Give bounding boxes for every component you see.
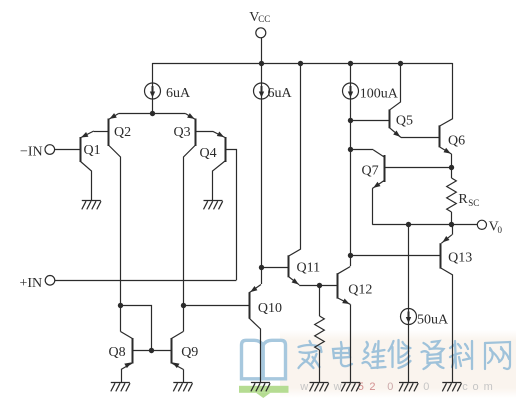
svg-text:Q9: Q9 xyxy=(181,345,198,360)
svg-text:0: 0 xyxy=(498,225,503,235)
svg-text:+IN: +IN xyxy=(20,276,43,291)
svg-text:m: m xyxy=(484,381,493,393)
svg-text:2: 2 xyxy=(369,381,375,393)
svg-text:Q4: Q4 xyxy=(200,146,217,161)
svg-text:0: 0 xyxy=(423,381,429,393)
svg-text:−IN: −IN xyxy=(20,145,43,160)
svg-text:Q8: Q8 xyxy=(109,345,126,360)
svg-text:Q1: Q1 xyxy=(84,143,101,158)
svg-text:CC: CC xyxy=(258,14,270,24)
svg-text:w: w xyxy=(333,381,342,393)
svg-text:o: o xyxy=(473,381,479,393)
svg-text:SC: SC xyxy=(468,198,479,208)
svg-text:50uA: 50uA xyxy=(417,313,449,328)
svg-text:100uA: 100uA xyxy=(360,86,399,101)
svg-text:Q2: Q2 xyxy=(114,125,131,140)
svg-text:Q6: Q6 xyxy=(448,133,465,148)
svg-text:Q12: Q12 xyxy=(348,283,372,298)
svg-text:Q3: Q3 xyxy=(174,125,191,140)
svg-text:R: R xyxy=(458,192,468,207)
svg-text:c: c xyxy=(462,381,468,393)
svg-text:w: w xyxy=(299,381,308,393)
svg-text:0: 0 xyxy=(387,381,393,393)
svg-text:Q5: Q5 xyxy=(396,113,413,128)
svg-text:Q11: Q11 xyxy=(297,261,321,276)
svg-text:6uA: 6uA xyxy=(268,86,293,101)
svg-text:Q7: Q7 xyxy=(362,164,379,179)
svg-text:Q10: Q10 xyxy=(258,301,282,316)
svg-text:Q13: Q13 xyxy=(448,251,472,266)
svg-text:6uA: 6uA xyxy=(166,86,191,101)
